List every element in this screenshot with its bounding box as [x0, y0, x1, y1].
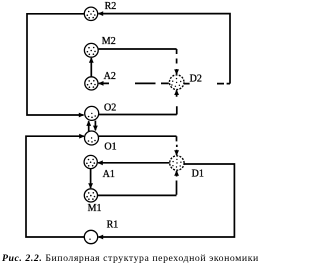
- wire dashed arrow from O1 line down into D1 top: [176, 136, 178, 155]
- node R2: [84, 7, 97, 20]
- node M1: [84, 189, 97, 202]
- node M2: [84, 43, 98, 57]
- svg-text:D2: D2: [190, 73, 202, 84]
- svg-text:A2: A2: [104, 71, 116, 82]
- caption: [2, 254, 262, 264]
- svg-text:R1: R1: [107, 219, 119, 230]
- node R1: [84, 230, 97, 243]
- wire dashed arrow into D2 top: [176, 49, 178, 74]
- wire M1 output right: [97, 194, 176, 196]
- svg-text:A1: A1: [103, 169, 115, 180]
- wire dashed arrow into D1 bottom: [176, 171, 178, 195]
- wire dashed arrow D2 to A2: [99, 82, 169, 84]
- svg-text:O2: O2: [104, 103, 116, 114]
- wire dashed D2 to right vertical: [184, 83, 230, 85]
- wire arrow A1 down to M1: [90, 169, 92, 188]
- svg-text:R2: R2: [105, 1, 117, 12]
- wire arrow D1 to A1: [98, 162, 169, 164]
- wire R2 output: left loop down to O2: [27, 14, 85, 115]
- svg-text:M2: M2: [102, 36, 116, 47]
- wire M2 output to corner above D2: [99, 48, 177, 50]
- wire D1 output right, down, into R1: [99, 164, 235, 237]
- wire exchange arrow O2 to O1 (down): [94, 121, 96, 131]
- node A2: [85, 77, 98, 90]
- wire feedback into R2 from right vertical: [99, 14, 231, 84]
- node O2: [85, 106, 99, 120]
- node D1: [170, 156, 184, 170]
- wire dashed arrow from O2 line up into D2 bottom: [176, 90, 178, 114]
- node O1: [85, 131, 99, 145]
- svg-text:M1: M1: [88, 203, 102, 214]
- wire exchange arrow O1 to O2 (up): [88, 121, 90, 131]
- wire O2 output right: [98, 114, 177, 116]
- node A1: [84, 155, 97, 168]
- node D2: [169, 75, 184, 90]
- wire O1 output right: [99, 135, 177, 137]
- wire R1 output: left loop up to O1: [26, 136, 85, 237]
- svg-text:O1: O1: [104, 142, 116, 153]
- svg-text:D1: D1: [192, 168, 204, 179]
- wire arrow A2 up to M2: [90, 58, 92, 77]
